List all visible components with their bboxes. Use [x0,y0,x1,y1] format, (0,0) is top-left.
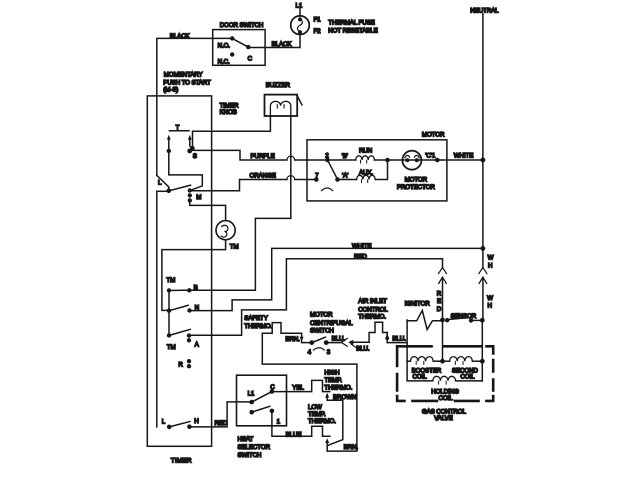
svg-text:SWITCH: SWITCH [238,452,262,459]
svg-text:CENTRIFUGAL: CENTRIFUGAL [310,320,353,327]
svg-text:C: C [248,56,253,63]
contact M stack [188,188,202,202]
wire BLU: air inlet to ignitor loop [385,333,407,343]
motor protector [397,151,435,191]
wire BLUE: selector 1 to low temp thermostat [272,413,330,438]
svg-text:M: M [196,194,201,201]
svg-text:TIMER: TIMER [171,458,192,465]
svg-text:F1: F1 [314,17,322,24]
svg-text:BROWN: BROWN [333,394,356,401]
wire RED: timer H to heat selector [189,402,251,427]
svg-text:MOTOR: MOTOR [422,132,445,139]
timer motor TM [216,221,239,251]
wire: sensor to gas valve (WH) [481,320,483,361]
svg-text:ORANGE: ORANGE [250,173,276,180]
thermal fuse F1/F2 [291,16,378,35]
node L1 (power terminal) [296,3,303,16]
net NEUTRAL [470,7,499,248]
svg-text:THERMO.: THERMO. [324,385,352,392]
svg-text:RUN: RUN [359,147,372,154]
svg-text:SELECTOR: SELECTOR [238,444,271,451]
wire: black line inside timer (common feed) [157,96,169,427]
svg-text:TM: TM [166,277,175,284]
svg-text:BLU.: BLU. [356,346,370,353]
disconnect BLU [341,338,370,352]
svg-text:HIGH: HIGH [324,370,339,377]
gas control valve dashed enclosure [397,346,493,401]
svg-text:LOW: LOW [308,404,322,411]
svg-text:DOOR SWITCH: DOOR SWITCH [220,22,264,29]
motor AUX winding [338,160,388,183]
svg-text:N.C.: N.C. [218,59,230,66]
svg-text:'A': 'A' [342,172,348,179]
timer contact N [167,305,199,313]
svg-text:H: H [488,263,492,270]
timer contact R (unused) [178,359,191,369]
timer contact TM-B [166,277,197,292]
wire: buzzer to timer contact B [189,116,290,290]
heat selector switch box [237,375,287,459]
svg-text:W: W [488,255,494,262]
svg-text:THERMO.: THERMO. [308,418,336,425]
heat selector terminal L1 [248,390,255,404]
wire RED: ignitor junction to booster coil [442,320,444,361]
svg-text:(M-S): (M-S) [163,87,178,94]
wire BRN arrow into centrifugal switch [285,333,309,343]
wire BRN: safety return line [262,333,357,451]
wire WHITE: motor to neutral [437,152,483,160]
wire: timer contact common column [168,291,170,336]
svg-text:THERMO.: THERMO. [244,323,272,330]
door switch contact N.C. [218,52,235,65]
contact S (start) [187,146,197,160]
svg-text:H: H [488,303,492,310]
svg-text:L: L [162,419,166,426]
wire: M to timer motor TM [190,203,226,221]
junction: wh/second/holding [480,359,485,364]
gas valve second coil [443,357,483,381]
air inlet control thermostat [358,298,388,342]
svg-text:PUSH TO START: PUSH TO START [163,79,211,86]
svg-text:L1: L1 [296,3,303,10]
motor enclosure box [307,132,447,201]
motor terminal 2 [325,153,330,163]
junction: white/neutral [481,246,486,251]
svg-text:YEL: YEL [292,385,304,392]
svg-text:S: S [193,153,197,160]
door switch contact N.O. [218,36,235,49]
svg-text:MOMENTARY: MOMENTARY [164,72,203,79]
wire BROWN: high temp to low temp arm [328,394,356,445]
wire BRN label at valve return [344,444,359,451]
svg-text:HEAT: HEAT [238,436,254,443]
svg-text:THERMAL FUSE: THERMAL FUSE [328,19,374,26]
svg-text:AIR INLET: AIR INLET [358,298,387,305]
svg-text:IGNITOR: IGNITOR [405,301,431,308]
timer knob bar T [169,124,189,131]
motor RUN winding [330,147,388,163]
wire WHITE: timer N to neutral [190,243,483,311]
svg-text:1: 1 [277,418,281,425]
safety thermostat [244,315,301,333]
wire: arrow node to contact M hook [169,153,203,190]
svg-text:E: E [437,298,441,305]
svg-text:BUZZER: BUZZER [266,82,291,89]
svg-text:A: A [195,341,200,348]
svg-text:N.O.: N.O. [218,43,231,50]
junction: run/aux [385,158,402,163]
wire ORANGE: M to motor terminal 7 [191,173,317,191]
disconnect on RED line [437,268,447,320]
svg-text:BLU.: BLU. [392,336,406,343]
svg-text:COIL: COIL [413,374,428,381]
svg-text:SWITCH: SWITCH [310,327,334,334]
svg-text:H: H [194,418,198,425]
gas valve holding coil [407,361,482,402]
svg-text:3: 3 [327,349,331,356]
motor terminal C-1 [421,152,439,162]
disconnect on WH neutral branch [479,248,494,320]
push-to-start switch M-S plunger [157,175,169,189]
gas control valve label [422,408,467,422]
motor centrifugal arm 2-A [322,160,340,191]
svg-text:NEUTRAL: NEUTRAL [470,7,499,14]
svg-text:F2: F2 [314,28,322,35]
timer enclosure box [147,72,239,465]
wire BLACK: door switch N.O. to timer [157,33,232,96]
wire: TM return to timer contact column [162,240,226,311]
svg-text:THERMO.: THERMO. [358,313,386,320]
svg-text:MOTOR: MOTOR [405,177,428,184]
actuator arrow left [167,135,171,153]
svg-text:4: 4 [308,349,312,356]
low temp thermostat [308,404,336,451]
heat selector terminal C and arm [252,384,276,402]
svg-text:COIL: COIL [439,395,454,402]
high temp thermostat [324,370,352,401]
gas valve booster coil [407,357,442,381]
timer contact L-H [162,418,199,429]
svg-text:SAFETY: SAFETY [244,315,267,322]
push-to-start pivot junction [167,185,191,193]
svg-text:'C'1: 'C'1 [425,152,436,159]
buzzer [265,82,303,116]
svg-text:TEMP.: TEMP. [324,377,342,384]
svg-text:WHITE: WHITE [454,152,473,159]
wire BLACK: fuse F2 to door switch C [265,35,300,49]
svg-text:VALVE: VALVE [434,415,453,422]
svg-text:TEMP.: TEMP. [308,411,326,418]
svg-text:PURPLE: PURPLE [251,153,275,160]
door switch common C and arm [232,38,265,62]
wire: S to buzzer [193,116,271,149]
motor centrifugal switch 4-3 [308,312,354,356]
svg-text:TM: TM [230,243,239,250]
svg-text:D: D [437,306,442,313]
junction: red/booster/holding [440,359,445,364]
wire BLU: contact 3 to disconnect [326,335,345,342]
timer contact TM-A [167,329,200,351]
svg-text:TM: TM [167,344,176,351]
door switch [213,22,265,65]
svg-text:'B': 'B' [342,153,348,160]
svg-text:R: R [437,291,442,298]
svg-text:COIL: COIL [460,374,475,381]
motor terminal 7 [314,173,319,182]
actuator arrow right [188,135,192,146]
svg-text:BRN.: BRN. [344,444,359,451]
heat selector lower pole and terminal 1 [249,406,280,425]
svg-text:KNOB: KNOB [220,109,237,116]
svg-text:L1: L1 [248,390,255,397]
wire YEL: C to high temp thermostat [272,380,330,391]
ignitor [405,301,440,330]
junction: red/ignitor [440,318,449,323]
wire: ignitor loop left side [406,320,408,361]
svg-text:BRN.: BRN. [285,336,300,343]
junction: neutral / motor white [481,158,486,163]
svg-text:MOTOR: MOTOR [310,312,333,319]
svg-text:PROTECTOR: PROTECTOR [397,184,435,191]
wire PURPLE: S to motor terminal 2 [192,150,328,160]
wire RED: timer A to ignitor feed [189,253,443,335]
svg-text:R: R [178,362,183,369]
flame sensor [448,313,485,323]
svg-text:BLUE: BLUE [286,432,302,439]
svg-text:W: W [487,295,493,302]
svg-text:NOT RESETABLE: NOT RESETABLE [328,27,377,34]
svg-text:BLACK: BLACK [272,41,293,48]
